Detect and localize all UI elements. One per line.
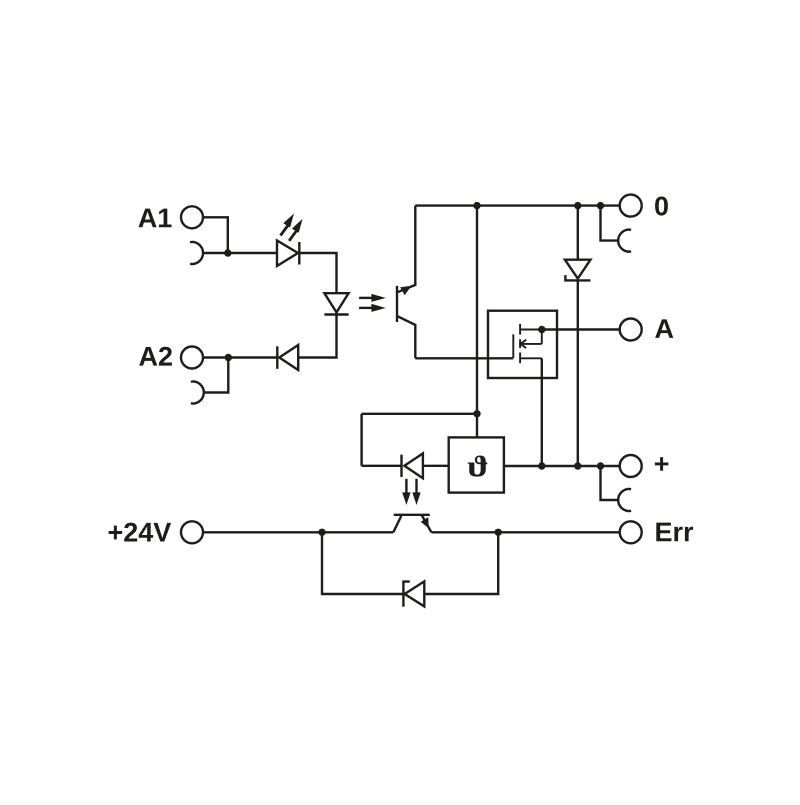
terminal plus bbox=[620, 455, 642, 477]
diode D2 bbox=[277, 345, 298, 370]
thermal symbol theta bbox=[468, 455, 488, 476]
MOSFET source vertical wire bbox=[541, 358, 543, 466]
wire A2 circle to diode bbox=[203, 356, 277, 358]
phototransistor Q1 base bar bbox=[396, 286, 398, 322]
wire gate row bbox=[415, 357, 513, 359]
plus row wire bbox=[504, 465, 620, 467]
MOSFET channel segment 3 bbox=[519, 352, 521, 363]
wire 0 bridge jog bbox=[601, 206, 619, 241]
opto light arrow 1 bbox=[359, 294, 386, 302]
transistor Q2 base bar bbox=[394, 514, 430, 516]
node feedback junction bbox=[473, 410, 480, 417]
terminal A1 bbox=[181, 206, 203, 228]
phototransistor Q1 emitter arrow bbox=[400, 286, 411, 295]
terminal A bbox=[620, 319, 642, 341]
MOSFET drain wire to terminal A bbox=[542, 328, 620, 330]
zener diode D5 top wire bbox=[577, 206, 579, 260]
wire transistor to Err bbox=[431, 531, 619, 533]
node A1 junction bbox=[224, 249, 231, 256]
MOSFET source lead bbox=[520, 357, 542, 359]
bridge contact 0 bbox=[618, 230, 631, 252]
node rail-bridge junction bbox=[597, 202, 604, 209]
thermal sensor box B1 bbox=[449, 437, 504, 492]
wire A2 hook to junction bbox=[204, 358, 229, 393]
MOSFET gate bar bbox=[512, 334, 514, 358]
bridge contact A1 bbox=[190, 242, 203, 264]
label A2 bbox=[139, 347, 157, 366]
wire to diode D4 bbox=[362, 465, 402, 467]
feedback horizontal wire bbox=[362, 413, 477, 415]
MOSFET box T1 bbox=[488, 311, 557, 378]
label A bbox=[655, 319, 673, 338]
bridge contact plus bbox=[618, 489, 631, 511]
MOSFET drain lead bbox=[520, 329, 542, 331]
opto2 light arrow 1 bbox=[402, 479, 410, 505]
wire plus bridge jog bbox=[601, 466, 619, 500]
transistor Q2 emitter lead bbox=[422, 516, 431, 533]
wire A1 hook to LED bbox=[203, 252, 277, 254]
feedback left vertical wire bbox=[360, 414, 362, 466]
terminal A2 bbox=[181, 347, 203, 369]
wire D2 to opto LED bbox=[298, 312, 336, 357]
node rail-feedback junction bbox=[473, 202, 480, 209]
MOSFET channel segment 2 bbox=[519, 339, 521, 348]
top rail wire bbox=[415, 204, 619, 206]
MOSFET body vertical wire bbox=[541, 330, 543, 344]
label A1 bbox=[138, 209, 156, 228]
label +24V bbox=[109, 526, 123, 540]
opto light arrow 2 bbox=[359, 304, 386, 312]
LED D1 bbox=[277, 241, 299, 267]
node source junction bbox=[538, 462, 545, 469]
phototransistor Q1 emitter lead bbox=[398, 316, 416, 358]
wire +24V branch down bbox=[322, 532, 403, 594]
node zener junction bbox=[574, 462, 581, 469]
node Err junction bbox=[495, 529, 502, 536]
node rail-zener junction bbox=[574, 202, 581, 209]
LED D1 light arrow 1 bbox=[281, 214, 295, 236]
LED D1 light arrow 2 bbox=[289, 219, 303, 241]
diode D4 bbox=[402, 453, 423, 478]
zener diode D5 bbox=[565, 260, 591, 281]
wire +24V to transistor bbox=[203, 531, 393, 533]
optocoupler LED D3 bbox=[324, 293, 348, 314]
MOSFET channel segment 1 bbox=[519, 324, 521, 335]
label plus bbox=[655, 457, 669, 471]
bridge contact A2 bbox=[191, 382, 204, 404]
label 0 bbox=[655, 196, 668, 215]
node drain junction bbox=[538, 326, 545, 333]
terminal 0 bbox=[620, 195, 642, 217]
zener D5 bottom wire bbox=[577, 280, 579, 466]
label Err bbox=[656, 523, 671, 542]
transistor Q2 collector lead bbox=[393, 516, 401, 532]
phototransistor Q1 collector lead bbox=[398, 206, 416, 293]
node A2 junction bbox=[225, 354, 232, 361]
transistor Q2 emitter arrow bbox=[421, 517, 429, 528]
wire D1 to opto LED bbox=[299, 253, 336, 293]
wire D6 to Err junction bbox=[424, 532, 498, 594]
MOSFET body lead with chevron arrow bbox=[520, 340, 541, 348]
zener diode D6 bbox=[403, 581, 424, 606]
feedback vertical wire bbox=[476, 206, 478, 438]
opto2 light arrow 2 bbox=[412, 479, 420, 505]
wire D4 to thermal box bbox=[423, 465, 449, 467]
node +24V junction bbox=[318, 529, 325, 536]
terminal +24V bbox=[181, 521, 203, 543]
node bridge junction bbox=[597, 462, 604, 469]
wire A1 circle to junction bbox=[203, 217, 228, 253]
terminal Err bbox=[620, 521, 642, 543]
